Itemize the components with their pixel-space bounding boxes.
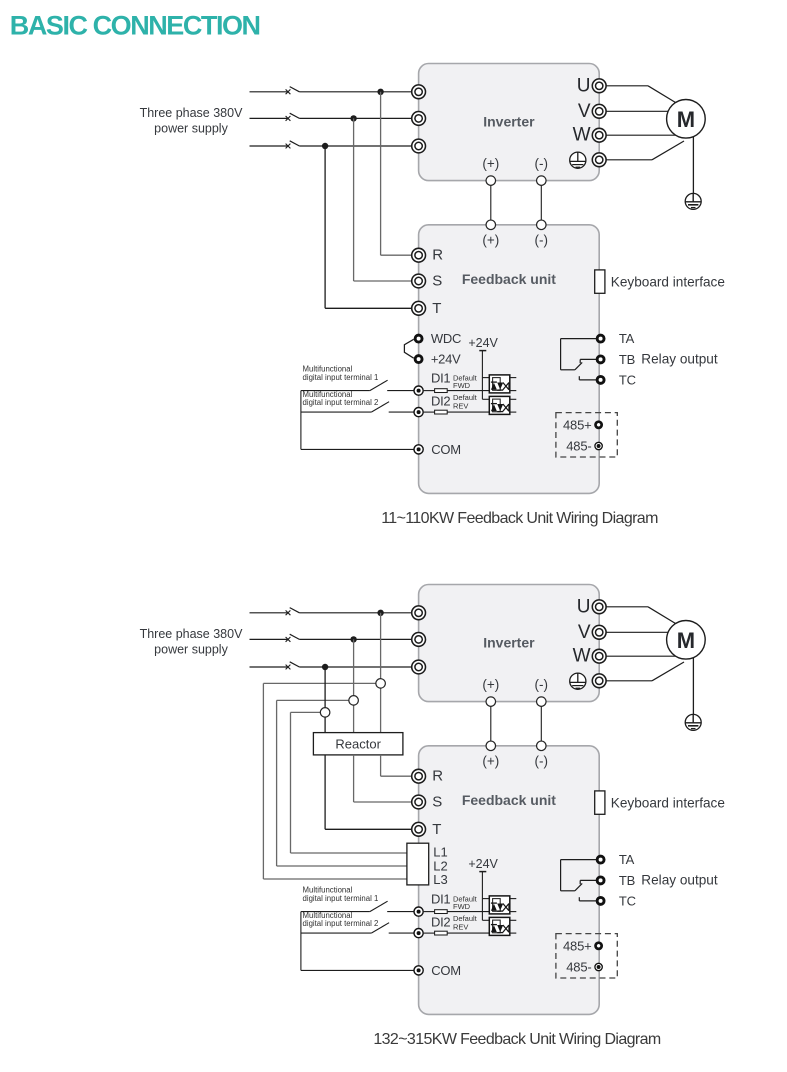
svg-text:485-: 485- [566, 439, 591, 454]
svg-text:Three phase 380V: Three phase 380V [140, 106, 244, 120]
svg-text:digital input terminal 2: digital input terminal 2 [303, 398, 379, 407]
svg-text:digital input terminal 2: digital input terminal 2 [303, 919, 379, 928]
svg-text:REV: REV [453, 922, 468, 931]
svg-text:FWD: FWD [453, 381, 471, 390]
svg-text:T: T [432, 300, 441, 317]
svg-text:DI1: DI1 [431, 892, 450, 907]
svg-text:485-: 485- [566, 960, 591, 975]
svg-text:S: S [432, 273, 442, 290]
svg-text:(-): (-) [535, 754, 549, 769]
svg-text:COM: COM [431, 442, 460, 457]
svg-text:BASIC CONNECTION: BASIC CONNECTION [10, 11, 260, 41]
svg-text:R: R [432, 247, 443, 264]
svg-text:V: V [578, 101, 591, 122]
svg-text:power supply: power supply [154, 122, 228, 136]
svg-text:U: U [577, 596, 591, 617]
svg-text:+24V: +24V [468, 857, 498, 871]
svg-text:Reactor: Reactor [335, 736, 381, 751]
svg-text:TC: TC [619, 372, 636, 387]
svg-text:+24V: +24V [468, 336, 498, 350]
svg-text:Feedback unit: Feedback unit [462, 792, 556, 808]
svg-text:DI1: DI1 [431, 371, 450, 386]
svg-text:COM: COM [431, 963, 460, 978]
svg-text:Feedback unit: Feedback unit [462, 271, 556, 287]
svg-text:TA: TA [619, 852, 635, 867]
svg-text:Relay output: Relay output [641, 872, 718, 887]
svg-text:T: T [432, 821, 441, 838]
svg-text:L2: L2 [433, 858, 447, 873]
svg-text:FWD: FWD [453, 902, 471, 911]
svg-text:132~315KW Feedback Unit Wiring: 132~315KW Feedback Unit Wiring Diagram [373, 1031, 661, 1048]
svg-text:S: S [432, 794, 442, 811]
svg-text:W: W [573, 125, 591, 146]
svg-text:TB: TB [619, 352, 635, 367]
svg-text:REV: REV [453, 401, 468, 410]
svg-text:485+: 485+ [563, 417, 591, 432]
svg-text:Relay output: Relay output [641, 351, 718, 366]
svg-text:(+): (+) [482, 754, 499, 769]
svg-text:DI2: DI2 [431, 915, 450, 930]
svg-text:digital input terminal 1: digital input terminal 1 [303, 373, 379, 382]
svg-text:L3: L3 [433, 872, 447, 887]
svg-text:TA: TA [619, 331, 635, 346]
svg-text:(-): (-) [535, 677, 549, 692]
svg-text:R: R [432, 768, 443, 785]
svg-text:Inverter: Inverter [483, 114, 535, 130]
svg-text:Keyboard interface: Keyboard interface [611, 275, 725, 290]
svg-text:Three phase 380V: Three phase 380V [140, 627, 244, 641]
svg-text:(+): (+) [482, 156, 499, 171]
svg-text:+24V: +24V [431, 352, 461, 367]
svg-text:Keyboard interface: Keyboard interface [611, 796, 725, 811]
svg-text:U: U [577, 75, 591, 96]
svg-text:(-): (-) [535, 233, 549, 248]
svg-text:TB: TB [619, 873, 635, 888]
svg-text:Inverter: Inverter [483, 635, 535, 651]
svg-text:L1: L1 [433, 844, 447, 859]
svg-text:11~110KW Feedback Unit Wiring: 11~110KW Feedback Unit Wiring Diagram [381, 510, 658, 527]
svg-text:power supply: power supply [154, 643, 228, 657]
svg-text:M: M [677, 107, 695, 132]
svg-text:DI2: DI2 [431, 394, 450, 409]
svg-text:TC: TC [619, 893, 636, 908]
svg-text:digital input terminal 1: digital input terminal 1 [303, 894, 379, 903]
svg-text:M: M [677, 628, 695, 653]
svg-text:(-): (-) [535, 156, 549, 171]
svg-text:485+: 485+ [563, 938, 591, 953]
svg-text:(+): (+) [482, 677, 499, 692]
svg-text:V: V [578, 622, 591, 643]
svg-text:WDC: WDC [431, 331, 461, 346]
svg-text:W: W [573, 646, 591, 667]
svg-text:(+): (+) [482, 233, 499, 248]
